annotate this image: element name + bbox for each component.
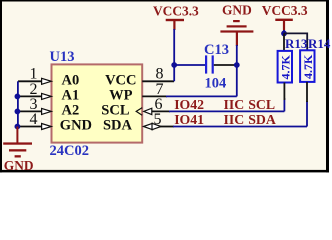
pin 4 line — [17, 126, 42, 128]
wire junction to C13 left — [174, 64, 205, 66]
svg-text:GND: GND — [60, 118, 92, 134]
svg-text:SDA: SDA — [248, 112, 276, 127]
svg-text:IIC: IIC — [224, 97, 245, 112]
svg-text:U13: U13 — [50, 49, 75, 65]
wire SDA net — [173, 126, 307, 128]
pin 2 line — [17, 95, 42, 97]
junction pin3 bus — [15, 109, 21, 115]
wire C13 right to junction — [214, 64, 237, 66]
svg-text:IO42: IO42 — [174, 97, 204, 112]
svg-text:A2: A2 — [62, 102, 80, 118]
pin 7 line — [142, 95, 167, 97]
svg-text:GND: GND — [4, 158, 34, 173]
resistor R13 — [278, 51, 292, 83]
svg-text:IO41: IO41 — [174, 112, 204, 127]
svg-text:A1: A1 — [62, 87, 80, 103]
svg-text:VCC3.3: VCC3.3 — [262, 3, 308, 18]
svg-text:104: 104 — [205, 76, 227, 92]
pin R13 bottom stub — [283, 83, 285, 101]
svg-text:4.7K: 4.7K — [279, 55, 293, 80]
ground GND top symbol (inverted) — [220, 20, 253, 46]
pin 6 outer arrow — [144, 108, 152, 114]
pin 1 input arrow — [42, 78, 52, 84]
svg-text:C13: C13 — [204, 42, 229, 58]
pin 5 line — [160, 126, 174, 128]
junction pin4 bus — [15, 124, 21, 130]
pin 2 input arrow — [42, 93, 52, 99]
svg-text:SCL: SCL — [248, 97, 275, 112]
svg-text:4.7K: 4.7K — [301, 54, 315, 79]
svg-text:VCC: VCC — [105, 72, 136, 88]
junction VCC right — [281, 31, 287, 37]
svg-text:A0: A0 — [62, 72, 80, 88]
svg-text:4: 4 — [30, 111, 38, 128]
pin 6 inner IO mark — [136, 108, 142, 116]
junction C13/GND/WP — [234, 62, 240, 68]
pin 4 input arrow — [42, 124, 52, 130]
IC U13 body — [52, 64, 143, 142]
wire SCL vertical to R13 — [283, 98, 285, 111]
sheet border frame — [0, 0, 329, 172]
pin 5 bidir arrow left — [144, 123, 153, 129]
pin R14 bottom stub — [306, 82, 308, 102]
svg-text:VCC3.3: VCC3.3 — [153, 3, 199, 18]
ground GND lower-left — [3, 127, 32, 158]
resistor R14 — [300, 50, 314, 82]
svg-text:GND: GND — [222, 3, 252, 18]
wire left bus vertical — [17, 81, 19, 127]
pin R13 top stub — [283, 33, 285, 51]
capacitor C13 — [205, 55, 214, 73]
power VCC3.3 right symbol — [275, 19, 293, 31]
wire junction down to WP — [236, 65, 238, 96]
wire GND stem to junction — [236, 45, 238, 65]
junction pin2 bus — [15, 94, 21, 100]
svg-text:SCL: SCL — [101, 102, 130, 118]
svg-text:R13: R13 — [285, 36, 308, 51]
wire SCL net — [169, 110, 284, 112]
wire VCC stem to junction — [283, 30, 285, 33]
sheet background — [0, 0, 332, 173]
pin 8 line — [142, 80, 174, 82]
wire SDA vertical to R14 — [306, 101, 308, 127]
pin 5 bidir arrow right — [152, 123, 161, 129]
svg-text:R14: R14 — [308, 36, 331, 51]
pin 6 line — [152, 110, 170, 112]
power VCC3.3 left symbol — [166, 19, 184, 30]
pin 1 line — [18, 80, 42, 82]
pin 3 input arrow — [42, 108, 52, 114]
svg-text:24C02: 24C02 — [50, 143, 89, 159]
wire junction to R14 top — [284, 33, 307, 50]
svg-text:IIC: IIC — [224, 112, 245, 127]
svg-text:SDA: SDA — [103, 118, 133, 134]
wire VCC3.3 to pin8 vertical — [173, 29, 175, 81]
svg-text:WP: WP — [109, 87, 133, 103]
wire WP horizontal — [166, 95, 237, 97]
junction VCC/pin8/C13 — [171, 62, 177, 68]
pin 3 line — [17, 110, 42, 112]
